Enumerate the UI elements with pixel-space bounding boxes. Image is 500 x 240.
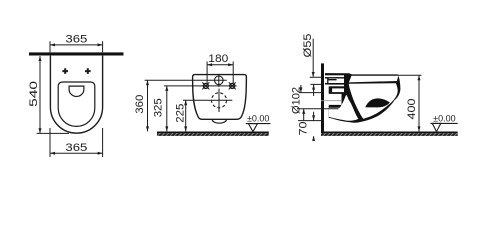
svg-text:325: 325 (152, 98, 164, 117)
dimension 365 (top) (50, 41, 103, 52)
svg-text:Ø55: Ø55 (302, 34, 314, 58)
WC pan outer outline (plan) (50, 56, 102, 134)
svg-text:180: 180 (208, 53, 228, 65)
inlet spigot bore cutout (side) (324, 79, 344, 84)
datum ±0.00 (side) (430, 123, 457, 131)
gap below inlet spigot (side) (324, 85, 344, 87)
dimension 225 (front left) (185, 100, 187, 131)
WC body outline (front) (193, 75, 247, 120)
outlet centerline (side, grey) (321, 100, 341, 102)
outlet circle (front, dashed) (212, 93, 227, 108)
outlet pipe cutout lower (side) (324, 94, 341, 105)
wall (plan) (29, 52, 124, 55)
bolt hole left (front) (203, 83, 208, 88)
svg-text:Ø102: Ø102 (291, 87, 303, 114)
svg-text:365: 365 (65, 33, 87, 45)
svg-text:±0.00: ±0.00 (247, 114, 269, 124)
WC rim inner outline (plan) (58, 82, 95, 126)
gap above inlet spigot (side) (324, 75, 344, 77)
bowl cavity + trap channel cutout (side) (349, 83, 398, 119)
dimension Ø55 (side) (310, 39, 321, 96)
svg-text:540: 540 (28, 81, 40, 107)
centerline 225 level (183, 99, 232, 101)
svg-text:70: 70 (298, 122, 310, 136)
outlet pipe cutout upper (side) (332, 88, 344, 92)
dimension 540 (left) (37, 56, 69, 133)
fixing-bolt mark right (plan) (85, 68, 91, 74)
floor (side) (321, 132, 458, 136)
rim band cutout (side) (349, 76, 398, 83)
bottom notch cutout (side) (329, 95, 359, 121)
floor (front view) (157, 132, 269, 136)
svg-text:365: 365 (65, 142, 87, 154)
centerline 325 level (164, 85, 237, 87)
centerline 360 level (145, 79, 227, 81)
wall (side) (321, 63, 324, 131)
svg-text:±0.00: ±0.00 (433, 113, 455, 123)
trap beak (side) (365, 98, 390, 107)
dimension Ø102 (side) (297, 85, 339, 120)
svg-text:225: 225 (174, 104, 186, 123)
datum ±0.00 (front) (246, 124, 271, 132)
dimension 360 (front left) (147, 80, 149, 131)
dimension 400 (side right) (398, 75, 422, 131)
dimension 180 (front top) (207, 62, 233, 84)
flush inlet circle (front, top) (215, 76, 224, 85)
svg-text:400: 400 (406, 99, 418, 120)
WC silhouette (side) (325, 73, 400, 123)
outlet bump (front, bottom) (212, 120, 226, 124)
svg-text:360: 360 (134, 95, 146, 114)
dimension 70 (side) (298, 112, 321, 141)
fixing-bolt mark left (plan) (62, 68, 68, 74)
dimension 365 (bottom) (50, 128, 103, 157)
bolt hole right (front) (230, 83, 235, 88)
dimension 325 (front left) (166, 86, 168, 131)
flush spreader (plan) (69, 86, 84, 96)
